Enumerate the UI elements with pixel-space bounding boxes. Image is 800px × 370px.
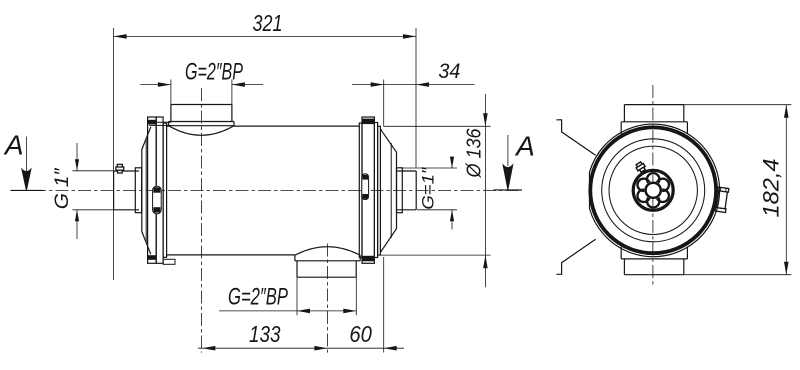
svg-text:A: A <box>514 130 535 161</box>
svg-text:G=2″ВР: G=2″ВР <box>185 59 243 86</box>
svg-text:321: 321 <box>253 10 283 36</box>
svg-text:133: 133 <box>249 321 281 347</box>
svg-text:G=2″ВР: G=2″ВР <box>228 284 288 311</box>
svg-text:182,4: 182,4 <box>759 159 784 218</box>
svg-text:34: 34 <box>438 59 460 83</box>
svg-text:G 1″: G 1″ <box>52 167 73 209</box>
svg-text:A: A <box>3 130 24 161</box>
svg-text:60: 60 <box>349 321 372 347</box>
svg-text:Ø 136: Ø 136 <box>464 128 486 179</box>
svg-text:G=1″: G=1″ <box>418 167 437 210</box>
